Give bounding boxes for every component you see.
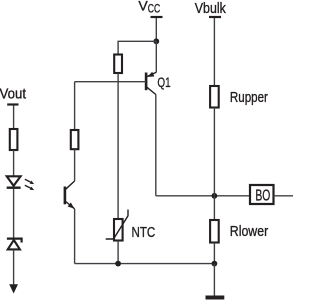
wire bottom bus [75, 263, 215, 265]
wire junction left and down to resistor [118, 41, 156, 54]
resistor (base branch) [71, 130, 79, 149]
wire Q1 base horizontal [75, 81, 147, 83]
thermistor NTC [106, 210, 128, 241]
node bus-NTC junction [115, 261, 121, 267]
Vbulk terminal bar [209, 16, 221, 18]
wire resistor to LED [13, 150, 15, 176]
transistor Q2 (NPN) [65, 181, 75, 209]
wire LED to zener [13, 189, 15, 238]
transistor Q1 (PNP) [146, 72, 156, 95]
node divider junction [212, 193, 218, 199]
wire Vbulk down to Rupper [213, 18, 215, 86]
svg-text:Vbulk: Vbulk [195, 0, 226, 17]
svg-text:BO: BO [255, 188, 270, 205]
svg-text:Q1: Q1 [157, 74, 170, 90]
wire zener down to arrow [13, 249, 15, 285]
box BO [250, 185, 274, 205]
resistor (NTC branch top) [114, 55, 122, 74]
resistor Rupper [210, 86, 219, 108]
wire Q1 emitter from junction [155, 41, 157, 72]
wire Q2 emitter to bus [74, 209, 76, 264]
wire NTC bottom to bus [117, 241, 119, 264]
node ground junction [212, 261, 218, 267]
svg-text:Rupper: Rupper [230, 89, 268, 106]
wire Vcc bar down to junction [155, 18, 157, 41]
wire resistor down to NTC [117, 73, 119, 219]
wire Rlower to ground junction [213, 243, 215, 264]
Vout terminal bar [7, 103, 18, 105]
LED D1 [7, 176, 35, 190]
wire collector to BO box [156, 195, 250, 197]
svg-text:CC: CC [148, 3, 160, 15]
Vcc terminal bar [151, 16, 163, 18]
wire down to ground [213, 264, 215, 296]
wire Q1 collector down [155, 95, 157, 196]
wire junction to Rlower [213, 196, 215, 220]
resistor Rlower [210, 220, 219, 243]
svg-text:Rlower: Rlower [230, 223, 268, 240]
arrow terminal (current direction) [9, 284, 18, 293]
resistor (Vout branch) [10, 129, 18, 150]
zener diode D2 [7, 239, 22, 250]
wire base branch down to resistor [74, 82, 76, 130]
wire Rupper to junction [213, 108, 215, 196]
ground [206, 296, 225, 300]
wire BO to right edge [274, 195, 294, 197]
node junction Vcc split [153, 38, 159, 44]
svg-text:NTC: NTC [132, 224, 156, 241]
net Vcc label [138, 0, 160, 15]
wire Vout down to resistor [13, 106, 15, 130]
svg-text:Vout: Vout [0, 85, 27, 102]
wire resistor to Q2 collector [74, 149, 76, 181]
